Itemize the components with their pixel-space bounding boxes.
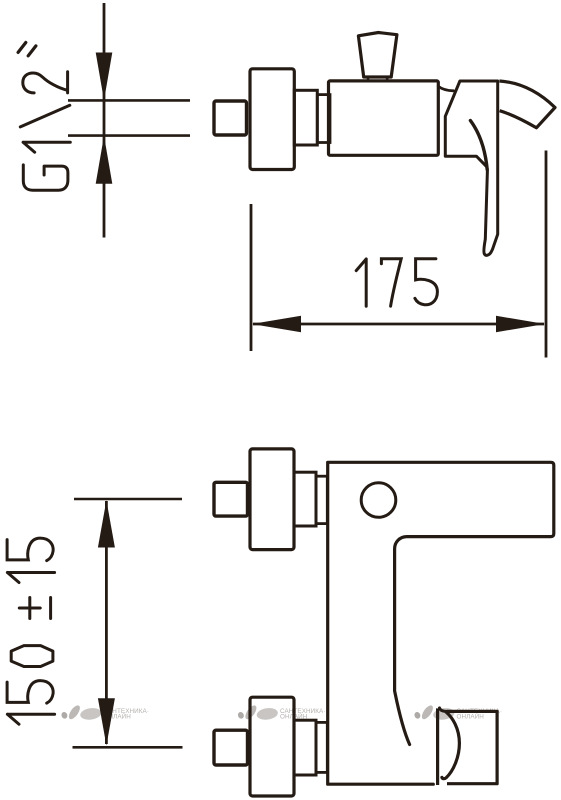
top view: diverter knob	[358, 33, 397, 78]
watermark 3 logo blobs	[414, 704, 503, 721]
175 dimension text: digit 7	[381, 259, 401, 306]
150 +-15 dimension text: digit 5	[7, 681, 53, 704]
label G1/2" : digit 2	[23, 72, 68, 93]
175 dimension text: digit 5	[415, 259, 438, 305]
175 dimension line	[253, 323, 544, 326]
150 +-15 dimension text: digit 1	[7, 573, 54, 583]
175 dimension: left extension line	[250, 204, 253, 351]
175 dimension: left arrow	[252, 316, 301, 332]
top view: handle neck curve	[438, 86, 453, 91]
watermark 1 logo blobs	[61, 704, 150, 721]
front view: upper supply nut	[214, 482, 248, 516]
G1/2 dimension arrow up	[96, 136, 113, 184]
150 dimension vertical line	[105, 501, 108, 744]
150 +-15 dimension text: digit 1	[7, 714, 54, 724]
label G1/2" : inch quotes	[18, 43, 36, 56]
front view: lower eccentric small step	[316, 722, 327, 772]
175 dimension: right extension line	[545, 151, 548, 358]
150 +-15 dimension text: plus-minus	[19, 598, 50, 619]
watermark 2 logo blobs	[237, 704, 326, 721]
150 dimension: arrow up	[98, 500, 115, 547]
front view: upper eccentric small step	[316, 476, 327, 523]
150 +-15 dimension text: digit 5	[7, 538, 53, 561]
front view: spout left separation line	[436, 708, 439, 785]
top view: handle and lever outline	[445, 81, 497, 255]
front view: diverter knob circle	[361, 483, 396, 518]
front view: upper eccentric middle cylinder	[294, 472, 316, 526]
top view: eccentric small step	[317, 95, 330, 143]
G1/2 extension line bottom	[68, 134, 190, 137]
150 dimension: arrow down	[98, 698, 115, 745]
150 dimension: bottom extension line	[73, 746, 183, 749]
front view: lower eccentric middle cylinder	[294, 720, 316, 775]
G1/2 dimension vertical line	[103, 3, 106, 238]
label G1/2" : letter G	[23, 165, 68, 190]
front view: lower wall escutcheon	[250, 697, 294, 796]
G1/2 extension line top	[68, 99, 190, 102]
label G1/2" : slash	[20, 105, 70, 127]
top view: eccentric middle cylinder	[294, 90, 317, 145]
top view: wall escutcheon	[250, 69, 294, 170]
150 dimension: top extension line	[74, 498, 182, 501]
175 dimension text: digit 1	[356, 259, 366, 306]
front view: spout face arc	[442, 712, 460, 778]
label G1/2" : digit 1	[23, 142, 70, 152]
front view: spout top hook	[440, 708, 448, 712]
top view: faucet body	[329, 81, 439, 155]
top view: handle inner silhouette curve	[470, 121, 487, 170]
top view: supply nut	[214, 101, 247, 135]
150 +-15 dimension text: digit 0	[11, 646, 53, 667]
front view: lower supply nut	[214, 730, 248, 765]
175 dimension: right arrow	[496, 316, 545, 332]
front view: spout end box	[447, 711, 497, 783]
top view: spout curving right	[499, 81, 555, 128]
front view: faucet body outline	[328, 462, 554, 784]
front view: upper wall escutcheon	[250, 449, 294, 550]
G1/2 dimension arrow down	[96, 53, 113, 101]
top view: diverter knob base step	[368, 77, 387, 80]
